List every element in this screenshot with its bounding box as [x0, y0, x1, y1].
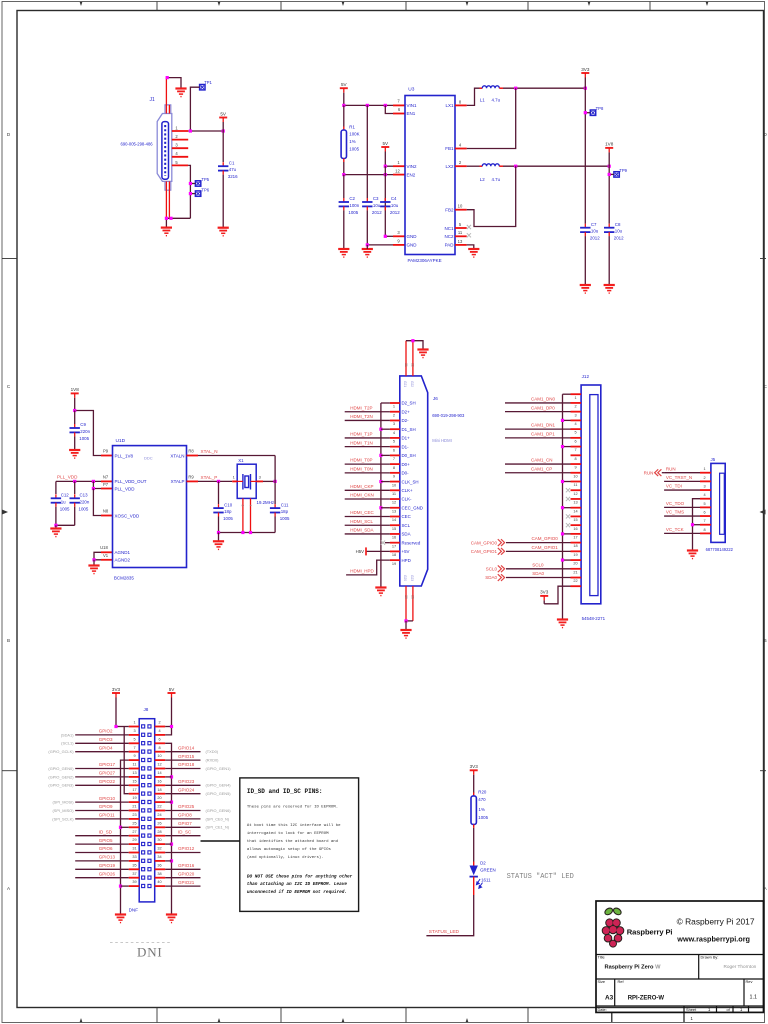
svg-text:GPIO14: GPIO14	[178, 745, 195, 750]
svg-text:GPIO10: GPIO10	[99, 796, 116, 801]
wire net GPIO26 (pin 37)	[75, 877, 129, 879]
svg-text:TP6: TP6	[201, 188, 209, 193]
svg-text:At boot time this I2C interfac: At boot time this I2C interface will be	[247, 823, 341, 828]
svg-text:HDMI_T0P: HDMI_T0P	[350, 458, 372, 463]
svg-text:1V8: 1V8	[605, 142, 614, 147]
svg-text:3V3: 3V3	[112, 687, 121, 692]
wire LX2 to L2	[467, 165, 480, 167]
wire C9 ground	[74, 436, 76, 450]
svg-text:SDA0: SDA0	[532, 571, 544, 576]
wire net GPIO16 (pin 36)	[165, 868, 200, 870]
svg-text:GREEN: GREEN	[480, 868, 496, 873]
svg-text:4: 4	[158, 729, 160, 733]
svg-text:18: 18	[392, 552, 396, 557]
J5 pin 7	[700, 524, 711, 526]
svg-text:20: 20	[404, 595, 408, 599]
testpoint TP1	[200, 85, 205, 90]
wire net SCL0	[506, 568, 571, 570]
junction C3 ground	[366, 243, 369, 246]
wire net GPIO14 (pin 8)	[165, 751, 200, 753]
wire net HDMI_T0P	[345, 463, 390, 465]
svg-text:NC1: NC1	[444, 226, 453, 231]
svg-text:GND: GND	[407, 234, 418, 239]
svg-text:BCM2835: BCM2835	[114, 576, 135, 581]
wire 3V3 to pin1	[116, 726, 129, 728]
svg-text:C11: C11	[281, 502, 289, 507]
svg-text:C12: C12	[61, 493, 70, 498]
capacitor C7	[584, 224, 586, 228]
U1D pin stub PLL_VDD P7	[101, 488, 113, 490]
svg-text:CAM1_DN0: CAM1_DN0	[531, 397, 556, 402]
crystal X1 body	[237, 464, 256, 498]
J8 pin 20 stub	[155, 801, 166, 803]
svg-text:(SPI_SCLK): (SPI_SCLK)	[52, 816, 74, 821]
wire C1 to ground	[222, 175, 224, 228]
svg-text:Raspberry Pi: Raspberry Pi	[627, 927, 673, 936]
svg-text:5: 5	[133, 737, 135, 741]
junction pin34 ground	[170, 859, 173, 862]
svg-text:16: 16	[392, 535, 396, 540]
capacitor C8	[608, 224, 610, 228]
svg-text:VIN2: VIN2	[407, 164, 418, 169]
svg-text:DDC: DDC	[144, 455, 153, 460]
svg-text:11: 11	[133, 763, 137, 767]
wire net GPIO18 (pin 12)	[165, 768, 200, 770]
svg-text:N8: N8	[103, 508, 109, 513]
svg-text:G22: G22	[410, 381, 414, 387]
wire R1 to EN2 rail	[343, 162, 345, 175]
title block dividers	[596, 955, 764, 1023]
svg-text:H5V: H5V	[356, 549, 364, 554]
svg-text:25: 25	[132, 821, 136, 825]
wire AGND loop	[94, 552, 101, 560]
svg-text:HDMI_T2N: HDMI_T2N	[350, 414, 373, 419]
J8 pin 6 stub	[155, 742, 166, 744]
svg-text:9: 9	[574, 466, 576, 470]
svg-text:CAM1_DP0: CAM1_DP0	[531, 405, 555, 410]
svg-text:C10: C10	[224, 502, 233, 507]
svg-text:P7: P7	[103, 482, 109, 487]
svg-text:SCL0: SCL0	[486, 567, 498, 572]
junction P7 tap	[92, 480, 95, 483]
ground crystal	[213, 541, 224, 549]
J8 pin 30 stub	[155, 843, 166, 845]
svg-text:AGND2: AGND2	[115, 558, 131, 563]
svg-text:1005: 1005	[79, 506, 89, 511]
wire shield bottom join	[406, 620, 413, 622]
ground U3 PAD	[468, 249, 479, 257]
svg-text:12: 12	[573, 492, 577, 496]
wire net HDMI_SDA	[345, 533, 390, 535]
svg-text:RUN: RUN	[666, 466, 676, 471]
svg-text:30: 30	[157, 838, 161, 842]
svg-text:D1+: D1+	[402, 436, 411, 441]
svg-text:LX1: LX1	[445, 103, 454, 108]
U3 pin stub EN2 pin12	[393, 174, 405, 176]
svg-text:D0-: D0-	[402, 471, 410, 476]
wire FB1	[467, 88, 516, 148]
wire net CAM1_DP0	[505, 411, 571, 413]
svg-text:PLL_VDD_OUT: PLL_VDD_OUT	[115, 479, 147, 484]
junction TP9	[608, 173, 611, 176]
wire C7 ground	[584, 236, 586, 285]
svg-text:Ref: Ref	[618, 979, 625, 984]
svg-text:8: 8	[703, 528, 705, 532]
svg-text:GND: GND	[407, 243, 418, 248]
J8 pin 7 stub	[129, 751, 140, 753]
J5 pin 3	[700, 489, 711, 491]
J12 pin 9	[571, 463, 582, 465]
svg-text:GPIO4: GPIO4	[99, 745, 113, 750]
svg-text:1005: 1005	[79, 436, 89, 441]
junction C9 tap	[73, 409, 76, 412]
wire net VC_TDI	[664, 489, 700, 491]
svg-text:6: 6	[574, 439, 576, 443]
svg-text:RUN: RUN	[644, 470, 654, 475]
svg-text:1005: 1005	[348, 210, 358, 215]
connector J12 inner strip	[590, 395, 598, 596]
wire FB2	[467, 166, 516, 226]
J12 pin 2	[571, 402, 582, 404]
wire +5V pin to H5V flag	[366, 550, 390, 552]
svg-text:DNF: DNF	[129, 908, 139, 913]
svg-text:C2: C2	[349, 196, 355, 201]
J12 pin 13	[571, 498, 582, 500]
U3 pin stub GND pin9	[393, 244, 405, 246]
wire net GPIO24 (pin 18)	[165, 793, 200, 795]
svg-text:HDMI_HPD: HDMI_HPD	[350, 568, 374, 573]
svg-text:HDMI_T1P: HDMI_T1P	[350, 432, 372, 437]
testpoint TP8	[590, 110, 595, 115]
svg-text:(GPIO_GEN1): (GPIO_GEN1)	[206, 766, 232, 771]
Raspberry Pi logo berry	[602, 919, 624, 947]
junction pin20 ground	[170, 801, 173, 804]
svg-text:GPIO25: GPIO25	[178, 804, 195, 809]
wire net CAM_GPIO1	[506, 550, 571, 552]
svg-text:3: 3	[393, 421, 395, 426]
svg-text:R20: R20	[478, 789, 487, 794]
svg-text:2012: 2012	[390, 210, 400, 215]
svg-text:U3: U3	[408, 87, 414, 93]
svg-text:X1: X1	[238, 458, 244, 463]
svg-text:ID_SD: ID_SD	[99, 829, 113, 834]
J8 pin 32 stub	[155, 852, 166, 854]
svg-text:CAM1_DN1: CAM1_DN1	[531, 423, 556, 428]
svg-text:20: 20	[573, 562, 577, 566]
svg-text:HDMI_T1N: HDMI_T1N	[350, 440, 373, 445]
U1D pin stub XTALN R8	[187, 455, 199, 457]
wire L1 to 3V3 node	[503, 87, 585, 89]
svg-text:HDMI_SDA: HDMI_SDA	[350, 528, 373, 533]
svg-text:GPIO12: GPIO12	[178, 846, 195, 851]
svg-text:38: 38	[157, 872, 161, 876]
DNI dashed line	[110, 942, 172, 944]
svg-text:HDMI_CEC: HDMI_CEC	[350, 510, 374, 515]
svg-text:(GPIO_GEN3): (GPIO_GEN3)	[48, 783, 74, 788]
svg-text:ID_SD and ID_SC PINS:: ID_SD and ID_SC PINS:	[247, 788, 323, 795]
svg-text:L2: L2	[480, 177, 485, 182]
ground C7	[580, 285, 591, 293]
wire 3V3 to J12 pin22	[544, 586, 570, 604]
wire net GPIO11 (pin 23)	[75, 818, 129, 820]
wire PAD to ground	[467, 245, 474, 249]
wire EN1 drop	[385, 105, 393, 113]
svg-text:R9: R9	[188, 474, 194, 479]
svg-text:54548-2271: 54548-2271	[582, 616, 606, 621]
junction EN1 tap	[384, 104, 387, 107]
J8 pin 22 stub	[155, 810, 166, 812]
svg-text:19: 19	[132, 796, 136, 800]
svg-text:TP8: TP8	[596, 106, 604, 111]
svg-text:D1-: D1-	[402, 444, 410, 449]
svg-text:(SPI_MISO): (SPI_MISO)	[53, 808, 75, 813]
svg-text:1V8: 1V8	[71, 387, 80, 392]
J6 pin 7 D0_SH	[390, 454, 400, 456]
svg-text:DNI: DNI	[137, 945, 163, 960]
J8 pin 23 stub	[129, 818, 140, 820]
junction 5V pin2	[170, 725, 173, 728]
wire net CAM1_CP	[505, 472, 571, 474]
svg-text:PLL_VDD: PLL_VDD	[57, 474, 78, 479]
wire net GPIO12 (pin 32)	[165, 852, 200, 854]
leader line ID_SC to note	[201, 840, 240, 842]
J8 pin 16 stub	[155, 784, 166, 786]
svg-text:C7: C7	[591, 222, 597, 227]
svg-text:1: 1	[574, 396, 576, 400]
wire HPD net	[346, 560, 390, 575]
svg-text:AGND1: AGND1	[115, 550, 131, 555]
J8 pin 3 stub	[129, 734, 140, 736]
svg-text:Date:: Date:	[598, 1007, 607, 1012]
wire 5V to VIN1	[344, 104, 393, 106]
U3 pin stub VIN1 pin7	[393, 104, 405, 106]
no-connect NC2	[467, 233, 471, 237]
svg-text:6: 6	[393, 447, 395, 452]
svg-text:(GPIO_GEN5): (GPIO_GEN5)	[206, 791, 232, 796]
connector J5 body	[711, 463, 725, 542]
ground AGND	[88, 566, 99, 574]
svg-text:CLK_SH: CLK_SH	[402, 479, 419, 484]
svg-text:5V: 5V	[220, 111, 227, 116]
svg-text:Size: Size	[598, 979, 606, 984]
svg-text:(GPIO_GEN6): (GPIO_GEN6)	[206, 808, 232, 813]
wire C3 to GND pin9 rail	[366, 210, 368, 245]
svg-text:13: 13	[573, 501, 577, 505]
svg-text:that identifies the attached b: that identifies the attached board and	[247, 839, 339, 844]
J8 pin 19 stub	[129, 801, 140, 803]
svg-text:15: 15	[392, 526, 396, 531]
svg-text:CEC: CEC	[402, 514, 411, 519]
svg-text:CAM1_CN: CAM1_CN	[531, 458, 553, 463]
svg-text:2: 2	[703, 476, 705, 480]
svg-text:LX2: LX2	[445, 164, 454, 169]
wire VIN2	[384, 157, 386, 166]
ground J5	[687, 551, 698, 559]
wire TP6	[190, 193, 195, 195]
svg-text:3: 3	[703, 484, 705, 488]
connector J12 body	[581, 385, 601, 604]
svg-text:G21: G21	[403, 381, 407, 387]
svg-text:allows automagic setup of the: allows automagic setup of the GPIOs	[247, 847, 332, 852]
svg-text:2012: 2012	[590, 236, 600, 241]
svg-text:(SCL1): (SCL1)	[61, 741, 74, 746]
wire J1 shell to ground	[166, 78, 181, 89]
wire net CAM1_DN1	[505, 428, 571, 430]
junction shield bottom	[404, 619, 407, 622]
ground C8	[604, 285, 615, 293]
svg-text:19: 19	[392, 561, 396, 566]
svg-text:CAM_GPIO0: CAM_GPIO0	[532, 536, 559, 541]
U1D pin stub XTALP R9	[187, 480, 199, 482]
connector J1 micro-USB body	[157, 114, 172, 182]
svg-text:GPIO21: GPIO21	[178, 880, 195, 885]
svg-text:GPIO20: GPIO20	[178, 871, 195, 876]
J8 pin 29 stub	[129, 843, 140, 845]
svg-text:10u: 10u	[615, 229, 623, 234]
svg-text:C8: C8	[615, 222, 621, 227]
svg-text:2012: 2012	[614, 236, 624, 241]
svg-text:5V: 5V	[382, 141, 389, 146]
svg-text:A3: A3	[605, 995, 614, 1002]
svg-text:35: 35	[132, 863, 136, 867]
wire net GPIO8 (pin 24)	[165, 818, 200, 820]
svg-text:2012: 2012	[372, 210, 382, 215]
testpoint TP6	[195, 191, 200, 196]
svg-text:23: 23	[132, 813, 136, 817]
wire net CAM_GPIO0	[506, 542, 571, 544]
svg-text:10: 10	[573, 474, 577, 478]
junction J6 shield pin 10	[379, 480, 382, 483]
junction J6 shield pin 7	[379, 454, 382, 457]
svg-text:V1: V1	[103, 553, 109, 558]
svg-text:XTALP: XTALP	[171, 479, 185, 484]
wire C2 to ground	[343, 210, 345, 249]
junction R1 EN2	[342, 173, 345, 176]
J8 pin 17 stub	[129, 793, 140, 795]
J12 pin 6	[571, 437, 582, 439]
svg-text:C4: C4	[391, 196, 397, 201]
svg-text:TP5: TP5	[201, 177, 209, 182]
no-connect J12 pin 12	[566, 488, 570, 492]
svg-text:4: 4	[574, 422, 576, 426]
svg-text:(GPIO_GEN0): (GPIO_GEN0)	[48, 766, 74, 771]
svg-text:5V: 5V	[341, 82, 348, 87]
J6 pin 18 +5V	[390, 550, 400, 552]
junction C10 tap	[217, 480, 220, 483]
svg-text:17: 17	[132, 788, 136, 792]
svg-text:+5V: +5V	[402, 549, 410, 554]
svg-text:VC_TMS: VC_TMS	[666, 510, 684, 515]
J6 shield pins bottom	[405, 586, 407, 621]
svg-text:5V: 5V	[169, 687, 176, 692]
svg-text:GPIO5: GPIO5	[99, 838, 113, 843]
svg-text:STATUS "ACT" LED: STATUS "ACT" LED	[507, 873, 574, 881]
svg-text:Sheet: Sheet	[686, 1007, 697, 1012]
svg-text:U18: U18	[100, 545, 108, 550]
svg-text:7: 7	[574, 448, 576, 452]
svg-text:GPIO15: GPIO15	[178, 754, 195, 759]
U1D pin stub PLL_1V8 P9	[101, 455, 113, 457]
J6 pin 10 CLK_SH	[390, 481, 400, 483]
J5 pin 8	[700, 532, 711, 534]
svg-text:22: 22	[157, 805, 161, 809]
X1 case pins 2 4	[242, 498, 244, 532]
svg-text:HDMI_CKP: HDMI_CKP	[350, 484, 373, 489]
wire net GPIO3 (pin 5)	[75, 742, 129, 744]
wire 5V to pins 2 and 4	[165, 727, 171, 735]
J5 pin 1	[700, 472, 711, 474]
svg-text:XOSC_VDD: XOSC_VDD	[115, 513, 141, 518]
svg-text:J5: J5	[711, 457, 716, 462]
J1 pin stubs 1-5	[172, 130, 188, 132]
wire TP5	[190, 183, 195, 185]
svg-text:(SPI_CE1_N): (SPI_CE1_N)	[206, 825, 230, 830]
wire J1 pin1 to 5V rail	[188, 130, 223, 132]
svg-text:(GPIO_GEN2): (GPIO_GEN2)	[48, 774, 74, 779]
svg-text:10u: 10u	[373, 203, 381, 208]
svg-text:C9: C9	[80, 422, 86, 427]
J8 pin 25 stub	[129, 826, 140, 828]
wire left ground bus	[121, 760, 129, 914]
svg-text:GPIO22: GPIO22	[99, 779, 116, 784]
J8 pin 39 stub	[129, 885, 140, 887]
J6 pin 14 CEC	[390, 515, 400, 517]
wire J5 pin7 ground	[693, 524, 701, 526]
svg-text:SDA0: SDA0	[485, 575, 497, 580]
wire net HDMI_CKN	[345, 498, 390, 500]
svg-text:(RXD0): (RXD0)	[206, 758, 220, 763]
svg-text:HDMI_CKN: HDMI_CKN	[350, 493, 374, 498]
wire crystal ground bus	[219, 532, 276, 534]
junction J6 shield pin 13	[379, 506, 382, 509]
J8 pin 8 stub	[155, 751, 166, 753]
J12 pin 23 stub	[571, 585, 582, 587]
U1D pin stub PLL_VDD_OUT N7	[101, 480, 113, 482]
J12 pin 4	[571, 419, 582, 421]
junction pin30 ground	[170, 843, 173, 846]
wire PLL_VDD rail	[56, 480, 101, 482]
J6 pin 8 D0+	[390, 463, 400, 465]
svg-text:FB2: FB2	[445, 207, 454, 212]
ground J8 right	[166, 915, 177, 923]
svg-text:1005: 1005	[60, 506, 70, 511]
svg-text:687708149222: 687708149222	[706, 547, 734, 552]
J6 pin 12 CLK-	[390, 498, 400, 500]
ground HDMI shield bottom	[400, 630, 411, 638]
J12 pin 1	[571, 393, 582, 395]
svg-text:GPIO18: GPIO18	[178, 762, 195, 767]
svg-text:CAM1_DP1: CAM1_DP1	[531, 431, 555, 436]
svg-text:690-019-298-903: 690-019-298-903	[432, 413, 465, 418]
junction TP5	[189, 182, 192, 185]
svg-text:14: 14	[157, 771, 161, 775]
svg-text:CAM_GPIO1: CAM_GPIO1	[471, 549, 498, 554]
junction pin39 ground	[119, 885, 122, 888]
svg-text:L1: L1	[480, 98, 485, 103]
J8 pin 24 stub	[155, 818, 166, 820]
J1 shell pin top	[165, 78, 167, 114]
resistor R1	[343, 105, 345, 126]
svg-text:VIN1: VIN1	[407, 103, 418, 108]
wire L2 to 1V8 node	[503, 165, 609, 167]
wire net GPIO15 (pin 10)	[165, 759, 200, 761]
no-connect J12 pin 13	[566, 497, 570, 501]
ground C1	[218, 228, 229, 236]
svg-text:2: 2	[574, 405, 576, 409]
svg-text:28: 28	[157, 830, 161, 834]
wire net GPIO21 (pin 40)	[165, 885, 200, 887]
svg-text:690-005-298-486: 690-005-298-486	[121, 142, 154, 147]
